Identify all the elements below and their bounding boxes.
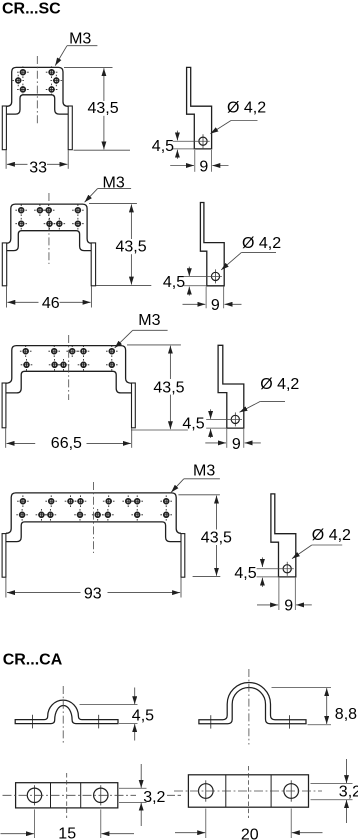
bracket CR-SC-33 right leg (side flange seen edge-on) <box>68 106 72 150</box>
dimension 33 (bracket 1 width) <box>6 150 68 176</box>
bracket CR-SC-66 vertical centerline <box>68 335 70 400</box>
dimension 4,5 (side view 2) <box>163 267 189 296</box>
dimension 66,5 (bracket 3 width) <box>6 428 132 452</box>
clamp CR-CA-20 vertical centerline <box>248 669 250 745</box>
bracket CR-SC-66 left leg (side flange seen edge-on) <box>2 383 6 428</box>
clamp CR-CA-15 vertical centerline (top view) <box>66 773 68 818</box>
dimension 15 (clamp CR-CA-15 hole spacing) <box>1 809 135 840</box>
clamp CR-CA-20 top view outline <box>188 775 308 807</box>
clamp CR-CA-15 vertical centerline <box>62 686 64 745</box>
bracket CR-SC-33 vertical centerline <box>36 56 38 125</box>
dimension 43,5 (bracket 3 height) <box>127 345 188 430</box>
svg-text:4,5: 4,5 <box>182 415 204 432</box>
side view 4: hole horizontal centerline / 4,5 upper reference <box>257 568 294 570</box>
svg-text:15: 15 <box>58 826 76 840</box>
bracket CR-SC-93 right leg (side flange seen edge-on) <box>181 534 185 578</box>
label M3 with leader arrow (bracket 3) <box>115 312 168 348</box>
clamp CR-CA-15 left hole <box>27 785 41 805</box>
bracket CR-SC-46 side view hole (4.2 mm) <box>211 272 219 280</box>
svg-text:66,5: 66,5 <box>51 435 82 452</box>
svg-text:9: 9 <box>199 158 208 175</box>
dimension 20 (clamp CR-CA-20 hole spacing) <box>175 809 323 840</box>
dimension 4,5 (side view 1) <box>152 131 178 159</box>
side view 1: bottom edge extension <box>173 148 195 150</box>
side view 3: bottom edge extension <box>206 427 227 429</box>
dimension 9 (side view 4 foot width) <box>257 578 312 615</box>
svg-text:9: 9 <box>232 436 241 453</box>
bracket CR-SC-93 side view hole (4.2 mm) <box>283 565 291 573</box>
bracket CR-SC-46 front view inner contour (neck / bend line) <box>7 231 92 251</box>
bracket CR-SC-66 holes <box>20 345 118 370</box>
svg-text:Ø 4,2: Ø 4,2 <box>312 527 351 544</box>
side view 2: bottom edge extension <box>184 285 207 287</box>
dimension 8,8 (clamp CR-CA-20 inner height) <box>272 687 358 724</box>
bracket CR-SC-93 front view outer contour (plate with bent sides) <box>6 493 181 533</box>
clamp CR-CA-15 top view outline <box>16 783 118 808</box>
bracket CR-SC-66 front view outer contour (plate with bent sides) <box>6 346 132 384</box>
clamp CR-CA-20 top view right bend line <box>270 775 272 807</box>
side view 1: hole horizontal centerline / 4,5 upper reference <box>173 140 210 142</box>
dimension 9 (side view 1 foot width) <box>170 150 228 175</box>
dimension 3,2 (clamp CR-CA-20 hole diameter) <box>311 759 358 823</box>
svg-text:Ø 4,2: Ø 4,2 <box>242 235 281 252</box>
dimension 43,5 (bracket 1 height) <box>64 67 130 150</box>
svg-text:8,8: 8,8 <box>335 706 357 723</box>
dimension 9 (side view 3 foot width) <box>205 429 260 453</box>
clamp CR-CA-20 screw position tick left <box>210 715 212 728</box>
svg-text:Ø 4,2: Ø 4,2 <box>227 99 266 116</box>
dimension 4,5 (clamp CR-CA-15 inner height) <box>80 688 155 741</box>
dimension 3,2 (clamp CR-CA-15 hole diameter) <box>119 764 166 826</box>
svg-text:43,5: 43,5 <box>116 239 147 256</box>
svg-text:CR...CA: CR...CA <box>3 652 63 669</box>
bracket CR-SC-46 right leg (side flange seen edge-on) <box>91 243 95 286</box>
bracket CR-SC-93 front view inner contour (neck / bend line) <box>6 522 181 542</box>
svg-text:20: 20 <box>241 826 259 840</box>
bracket CR-SC-33 side view hole (4.2 mm) <box>199 137 207 145</box>
svg-text:46: 46 <box>42 295 60 312</box>
svg-text:93: 93 <box>84 586 102 603</box>
bracket CR-SC-66 side view Z-profile outline <box>218 345 244 428</box>
clamp CR-CA-15 centerline continuation right of 3,2 label <box>167 794 181 796</box>
clamp CR-CA-15 top view right bend line <box>80 783 82 808</box>
svg-text:M3: M3 <box>138 312 160 329</box>
bracket CR-SC-66 front view inner contour (neck / bend line) <box>6 371 132 393</box>
dimension 4,5 (side view 4) <box>234 557 262 587</box>
side view 3: hole horizontal centerline / 4,5 upper reference <box>206 418 242 420</box>
bracket CR-SC-93 holes <box>16 495 172 520</box>
bracket CR-SC-33 side view hole vertical centerline <box>202 134 204 148</box>
bracket CR-SC-46 side view Z-profile outline <box>200 203 224 286</box>
clamp CR-CA-20 front view (saddle profile) <box>199 682 306 723</box>
clamp CR-CA-15 top view left bend line <box>50 783 52 808</box>
bracket CR-SC-66 side view hole vertical centerline <box>234 412 236 426</box>
svg-text:9: 9 <box>211 297 220 314</box>
svg-text:43,5: 43,5 <box>88 100 119 117</box>
clamp CR-CA-15 screw position tick left <box>32 715 34 729</box>
dimension 46 (bracket 2 width) <box>7 286 92 312</box>
bracket CR-SC-93 left leg (side flange seen edge-on) <box>2 534 6 578</box>
clamp CR-CA-20 horizontal centerline <box>174 790 322 792</box>
svg-text:M3: M3 <box>193 463 215 480</box>
bracket CR-SC-46 left leg (side flange seen edge-on) <box>2 243 6 286</box>
bracket CR-SC-66 right leg (side flange seen edge-on) <box>132 383 136 428</box>
svg-text:4,5: 4,5 <box>132 708 154 725</box>
clamp CR-CA-20 screw position tick right <box>288 715 290 728</box>
side view 2: hole horizontal centerline / 4,5 upper reference <box>184 275 222 277</box>
label M3 with leader arrow (bracket 2) <box>85 175 132 203</box>
label M3 with leader arrow (bracket 1) <box>55 31 97 66</box>
svg-text:43,5: 43,5 <box>201 529 232 546</box>
dimension 4,5 (side view 3) <box>182 409 210 438</box>
svg-text:3,2: 3,2 <box>143 789 165 806</box>
svg-text:Ø 4,2: Ø 4,2 <box>260 376 299 393</box>
svg-text:9: 9 <box>284 598 293 615</box>
clamp CR-CA-15 horizontal centerline <box>3 794 137 796</box>
clamp CR-CA-20 left hole <box>199 780 214 801</box>
dimension 9 (side view 2 foot width) <box>183 287 242 315</box>
bracket CR-SC-66 side view hole (4.2 mm) <box>231 415 239 423</box>
bracket CR-SC-46 front view outer contour (plate with bent sides) <box>7 204 92 243</box>
dimension 93 (bracket 4 width) <box>6 578 181 603</box>
label Ø 4,2 with leader arrow (side view 3) <box>240 376 300 412</box>
bracket CR-SC-33 holes <box>12 66 62 95</box>
svg-text:33: 33 <box>29 160 47 177</box>
clamp CR-CA-20 right hole <box>284 780 299 801</box>
clamp CR-CA-20 vertical centerline (top view) <box>248 766 250 818</box>
bracket CR-SC-33 front view inner contour (neck / bend line) <box>6 95 68 114</box>
clamp CR-CA-15 screw position tick right <box>98 715 100 729</box>
bracket CR-SC-33 left leg (side flange seen edge-on) <box>2 106 6 150</box>
label Ø 4,2 with leader arrow (side view 1) <box>210 99 266 133</box>
svg-text:4,5: 4,5 <box>234 565 256 582</box>
label Ø 4,2 with leader arrow (side view 2) <box>221 235 281 270</box>
dimension 43,5 (bracket 4 height) <box>178 495 232 577</box>
clamp CR-CA-15 front view (saddle profile) <box>15 700 118 724</box>
svg-text:M3: M3 <box>69 31 91 48</box>
svg-text:4,5: 4,5 <box>163 274 185 291</box>
bracket CR-SC-93 side view hole vertical centerline <box>286 562 288 576</box>
svg-text:3,2: 3,2 <box>339 784 358 801</box>
clamp CR-CA-20 top view left bend line <box>225 775 227 807</box>
side view 4: bottom edge extension <box>257 576 279 578</box>
bracket CR-SC-46 side view hole vertical centerline <box>215 269 217 283</box>
bracket CR-SC-33 front view outer contour (plate with bent sides) <box>6 67 68 106</box>
label Ø 4,2 with leader arrow (side view 4) <box>292 527 351 558</box>
bracket CR-SC-93 side view Z-profile outline <box>271 494 296 577</box>
svg-text:4,5: 4,5 <box>152 138 174 155</box>
clamp CR-CA-15 right hole <box>94 785 108 805</box>
bracket CR-SC-46 vertical centerline <box>48 193 50 264</box>
bracket CR-SC-33 side view Z-profile outline <box>187 67 212 148</box>
label M3 with leader arrow (bracket 4) <box>171 463 220 493</box>
bracket CR-SC-46 holes <box>15 204 83 229</box>
svg-text:43,5: 43,5 <box>153 379 184 396</box>
dimension 43,5 (bracket 2 height) <box>89 204 151 286</box>
bracket CR-SC-93 vertical centerline <box>92 482 94 553</box>
svg-text:CR...SC: CR...SC <box>2 0 61 17</box>
